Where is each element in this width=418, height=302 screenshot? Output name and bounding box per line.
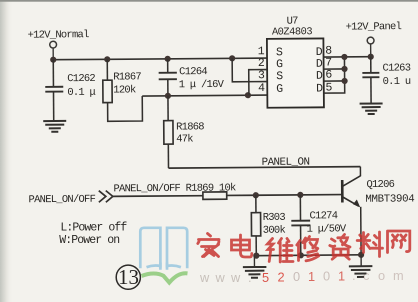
svg-text:+12V_Normal: +12V_Normal <box>28 29 90 41</box>
svg-text:PANEL_ON: PANEL_ON <box>262 157 310 169</box>
svg-text:G: G <box>276 83 283 96</box>
svg-text:w: w <box>215 270 226 285</box>
wire emitter ground rail <box>254 254 361 257</box>
svg-text:+12V_Panel: +12V_Panel <box>346 21 402 33</box>
U7 pin numbers left <box>258 45 265 95</box>
watermark chinese characters <box>198 231 410 262</box>
svg-text:C1264: C1264 <box>179 66 207 78</box>
junction rail-C1262 <box>50 57 56 63</box>
terminal +12V_Normal <box>50 41 57 60</box>
net label PANEL_ON <box>262 157 310 169</box>
svg-text:L:Power off: L:Power off <box>60 221 127 234</box>
watermark url row www.520101.com <box>199 268 404 285</box>
svg-text:R1868: R1868 <box>176 121 204 133</box>
svg-text:R303: R303 <box>263 212 286 224</box>
svg-text:D: D <box>316 70 323 83</box>
capacitor C1263 <box>362 57 379 103</box>
junction panel column <box>368 54 374 60</box>
wire port to R1869 <box>113 195 203 198</box>
junction gate-pin2 branch <box>245 92 251 98</box>
svg-text:C1263: C1263 <box>382 62 410 74</box>
label MMBT3904 <box>365 193 414 205</box>
svg-text:0.1 μ: 0.1 μ <box>67 87 95 99</box>
svg-text:13: 13 <box>118 265 139 289</box>
label C1274 value <box>306 210 347 236</box>
net label PANEL_ON/OFF <box>29 194 96 207</box>
svg-text:4: 4 <box>258 82 265 95</box>
junction rail-C1264 <box>165 56 171 62</box>
ground C1262 <box>43 121 66 132</box>
svg-text:Q1206: Q1206 <box>366 179 394 191</box>
junction drain bus pin8 <box>341 54 347 60</box>
svg-text:1 μ/50V: 1 μ/50V <box>307 223 347 235</box>
wire pin7 <box>324 68 345 70</box>
junction drain bus pin6 <box>341 78 347 84</box>
U7 pin numbers right <box>325 45 332 95</box>
watermark green ribbon <box>142 273 188 282</box>
wire gate node <box>142 94 267 97</box>
watermark book logo <box>140 228 187 270</box>
svg-text:2: 2 <box>278 270 285 285</box>
label R1868 value <box>176 121 204 145</box>
svg-text:w: w <box>230 270 241 285</box>
svg-text:6: 6 <box>325 69 332 82</box>
svg-text:MMBT3904: MMBT3904 <box>365 193 414 205</box>
junction base-C1274 <box>297 192 303 198</box>
junction rail-emitter <box>358 252 364 258</box>
wire pin8 to panel <box>324 56 371 58</box>
svg-text:o: o <box>378 268 385 283</box>
svg-text:3: 3 <box>258 69 265 82</box>
ground right <box>349 255 373 277</box>
label C1263 value <box>382 62 410 88</box>
svg-text:A0Z4803: A0Z4803 <box>272 26 313 38</box>
svg-text:5: 5 <box>262 270 269 285</box>
wire +12V_Normal rail <box>53 58 267 60</box>
op-amp U7 body <box>267 15 324 107</box>
junction rail-R1867 <box>104 56 110 62</box>
junction base-R303 <box>253 192 259 198</box>
resistor R303 <box>251 195 261 255</box>
label Q1206 <box>366 179 394 191</box>
junction rail-R303 <box>253 253 259 259</box>
note W:Power on <box>59 234 119 247</box>
capacitor C1264 <box>159 59 177 96</box>
svg-text:R1867: R1867 <box>113 71 141 83</box>
svg-text:S: S <box>276 70 283 83</box>
svg-text:w: w <box>199 270 210 285</box>
svg-text:300k: 300k <box>263 225 286 237</box>
label R303 value <box>263 212 286 237</box>
junction gate-C1264 <box>165 93 171 99</box>
svg-text:W:Power on: W:Power on <box>59 234 119 247</box>
junction drain bus pin7 <box>341 66 347 72</box>
svg-text:2: 2 <box>258 57 265 70</box>
resistor R1867 <box>103 59 143 121</box>
wire pin3 <box>232 58 267 82</box>
note L:Power off <box>60 221 127 234</box>
svg-text:PANEL_ON/OFF: PANEL_ON/OFF <box>29 194 96 207</box>
resistor R1868 <box>164 96 174 168</box>
label PANEL_ON/OFF R1869 10k <box>113 182 236 195</box>
svg-text:1 μ /16V: 1 μ /16V <box>179 79 225 91</box>
svg-text:C1274: C1274 <box>309 210 337 222</box>
svg-text:47k: 47k <box>176 133 193 145</box>
terminal +12V_Panel <box>367 37 374 57</box>
svg-text:7: 7 <box>325 56 332 69</box>
label C1262 value <box>67 73 95 99</box>
page number stamp 13 <box>116 265 140 290</box>
ground C1263 <box>360 103 383 114</box>
svg-text:1: 1 <box>308 269 315 284</box>
net label +12V_Panel <box>346 21 402 33</box>
svg-text:1: 1 <box>338 269 345 284</box>
wire PANEL_ON <box>169 167 361 169</box>
junction rail-pin3 branch <box>229 55 235 61</box>
wire pin5 <box>324 57 345 93</box>
net label +12V_Normal <box>28 29 90 41</box>
svg-text:120k: 120k <box>113 84 136 96</box>
label R1867 value <box>113 71 141 96</box>
wire pin6 <box>324 80 345 82</box>
ground left <box>243 256 267 278</box>
svg-text:D: D <box>316 83 323 96</box>
capacitor C1262 <box>45 60 63 121</box>
junction rail-C1274 <box>298 252 304 258</box>
resistor R1869 <box>203 191 341 199</box>
wire pin2 <box>249 70 268 96</box>
svg-text:0: 0 <box>323 269 330 284</box>
svg-text:0.1 u: 0.1 u <box>383 76 411 88</box>
U7 pin letters <box>276 46 323 96</box>
svg-text:C1262: C1262 <box>67 73 95 85</box>
svg-text:PANEL_ON/OFF R1869 10k: PANEL_ON/OFF R1869 10k <box>113 182 236 195</box>
label C1264 value <box>179 66 225 91</box>
svg-text:m: m <box>393 268 404 283</box>
capacitor C1274 <box>291 195 310 256</box>
port chevron <box>99 191 113 203</box>
svg-text:0: 0 <box>293 269 300 284</box>
transistor Q1206 <box>342 167 361 255</box>
